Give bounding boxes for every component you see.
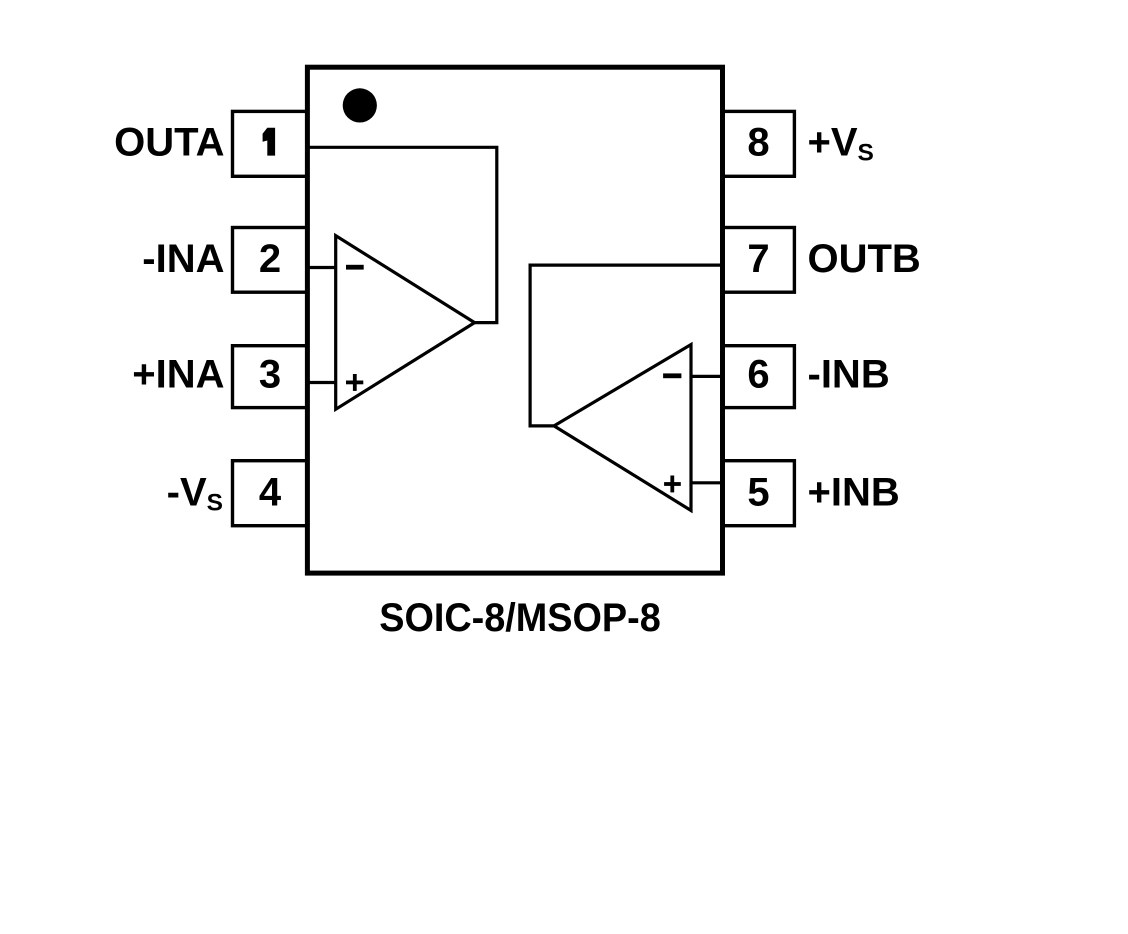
svg-text:-INA: -INA bbox=[142, 237, 224, 281]
wire pin 3 to op-amp A non-inverting input bbox=[305, 381, 338, 384]
svg-text:SOIC-8/MSOP-8: SOIC-8/MSOP-8 bbox=[379, 596, 661, 640]
pin 8 bbox=[722, 111, 795, 176]
pin 7 bbox=[722, 228, 795, 293]
svg-text:OUTA: OUTA bbox=[114, 121, 224, 165]
pin 4 bbox=[233, 461, 309, 526]
IC package body bbox=[307, 67, 722, 573]
pin 1 bbox=[233, 111, 309, 176]
op-amp A non-inverting input symbol bbox=[346, 374, 363, 391]
svg-text:7: 7 bbox=[747, 237, 769, 281]
svg-text:5: 5 bbox=[747, 471, 769, 515]
pin 2 bbox=[233, 228, 309, 293]
svg-text:+VS: +VS bbox=[808, 121, 874, 167]
svg-text:8: 8 bbox=[747, 121, 769, 165]
op-amp B bbox=[554, 345, 691, 511]
pin 3 bbox=[233, 346, 309, 408]
svg-text:3: 3 bbox=[259, 353, 281, 397]
svg-text:2: 2 bbox=[259, 237, 281, 281]
op-amp B inverting input symbol bbox=[663, 373, 681, 378]
svg-text:-INB: -INB bbox=[808, 353, 890, 397]
svg-text:+INA: +INA bbox=[132, 353, 224, 397]
wire pin 2 to op-amp A inverting input bbox=[305, 266, 338, 269]
op-amp A inverting input symbol bbox=[346, 265, 364, 270]
svg-text:OUTB: OUTB bbox=[808, 237, 921, 281]
wire op-amp B output to pin 7 bbox=[530, 265, 724, 426]
pin-1 index dot bbox=[343, 88, 377, 122]
pin 6 bbox=[722, 346, 795, 408]
wire op-amp A output to pin 1 bbox=[305, 147, 497, 322]
op-amp A bbox=[336, 236, 475, 410]
pin 5 bbox=[722, 461, 795, 526]
svg-text:6: 6 bbox=[747, 353, 769, 397]
wire pin 6 to op-amp B inverting input bbox=[690, 375, 724, 378]
wire pin 5 to op-amp B non-inverting input bbox=[690, 481, 724, 484]
svg-text:+INB: +INB bbox=[808, 471, 900, 515]
svg-text:4: 4 bbox=[259, 471, 282, 515]
op-amp B non-inverting input symbol bbox=[664, 476, 681, 493]
svg-text:-VS: -VS bbox=[167, 471, 223, 517]
